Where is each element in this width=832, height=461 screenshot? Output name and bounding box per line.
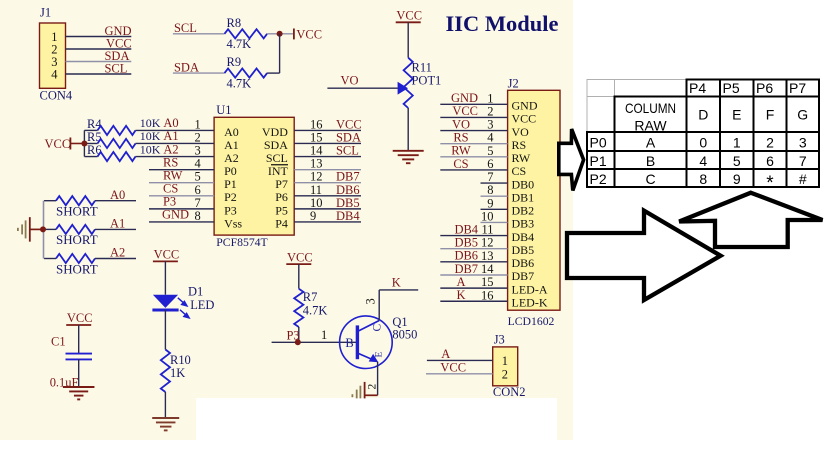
svg-text:10K: 10K bbox=[140, 129, 161, 143]
svg-text:C1: C1 bbox=[51, 335, 66, 349]
svg-text:J3: J3 bbox=[494, 333, 505, 347]
svg-text:A1: A1 bbox=[224, 138, 239, 152]
svg-text:A2: A2 bbox=[224, 151, 239, 165]
svg-text:A0: A0 bbox=[224, 125, 239, 139]
LED D1 bbox=[153, 295, 178, 308]
resistor R10 1K bbox=[161, 350, 170, 392]
wire pin6 CS bbox=[149, 195, 214, 197]
svg-text:9: 9 bbox=[733, 171, 741, 187]
ground bbox=[393, 150, 424, 152]
svg-text:J2: J2 bbox=[508, 77, 519, 91]
wire SCL to R8 bbox=[173, 33, 225, 35]
svg-text:K: K bbox=[392, 275, 401, 289]
power port VCC bbox=[286, 263, 311, 265]
svg-text:8: 8 bbox=[699, 171, 707, 187]
svg-text:3: 3 bbox=[799, 135, 807, 151]
svg-text:3: 3 bbox=[194, 144, 200, 158]
svg-text:SHORT: SHORT bbox=[56, 261, 98, 276]
svg-text:J1: J1 bbox=[40, 6, 51, 20]
svg-text:4: 4 bbox=[487, 131, 494, 145]
svg-text:R11: R11 bbox=[412, 61, 432, 75]
wire pin16 bbox=[294, 129, 361, 131]
power port VCC bbox=[396, 21, 421, 23]
svg-text:VCC: VCC bbox=[512, 112, 537, 126]
svg-text:7: 7 bbox=[799, 153, 807, 169]
svg-text:R10: R10 bbox=[170, 353, 191, 367]
up block arrow bbox=[679, 193, 822, 247]
svg-text:5: 5 bbox=[733, 153, 741, 169]
wire J3 pin2 bbox=[426, 373, 493, 375]
ground bbox=[63, 386, 94, 388]
svg-text:4: 4 bbox=[51, 68, 58, 82]
svg-text:1: 1 bbox=[194, 117, 200, 131]
svg-text:P3: P3 bbox=[163, 195, 176, 209]
svg-text:R9: R9 bbox=[227, 55, 242, 69]
svg-text:R4: R4 bbox=[87, 117, 102, 131]
svg-text:6: 6 bbox=[487, 157, 493, 171]
svg-text:R8: R8 bbox=[227, 16, 242, 30]
svg-text:GND: GND bbox=[512, 99, 538, 113]
power port VCC bbox=[153, 260, 178, 262]
wire emitter to ground bbox=[377, 362, 379, 396]
wire J2 pin14 bbox=[440, 274, 507, 276]
svg-text:P6: P6 bbox=[275, 190, 288, 204]
svg-text:1: 1 bbox=[321, 328, 327, 342]
svg-text:LED-K: LED-K bbox=[512, 295, 548, 309]
svg-text:0: 0 bbox=[699, 135, 707, 151]
svg-text:A: A bbox=[456, 275, 465, 289]
svg-text:G: G bbox=[797, 106, 808, 122]
svg-text:P5: P5 bbox=[275, 203, 288, 217]
svg-text:CS: CS bbox=[163, 182, 178, 196]
wire VCC stub bbox=[70, 142, 84, 144]
wire J2 pin16 bbox=[440, 300, 507, 302]
ground bbox=[29, 217, 31, 242]
ground bbox=[152, 417, 179, 419]
wire SDA to R9 bbox=[173, 72, 225, 74]
svg-text:3: 3 bbox=[364, 298, 378, 304]
wire pin14 bbox=[294, 156, 361, 158]
svg-text:DB0: DB0 bbox=[512, 177, 535, 191]
svg-text:C: C bbox=[372, 324, 384, 332]
svg-text:5: 5 bbox=[487, 144, 493, 158]
svg-text:4: 4 bbox=[194, 157, 201, 171]
svg-text:RAW: RAW bbox=[634, 117, 667, 133]
junction dot bbox=[277, 31, 283, 37]
svg-text:P6: P6 bbox=[756, 80, 773, 96]
wire pin4 RS bbox=[149, 169, 214, 171]
svg-text:A0: A0 bbox=[110, 188, 125, 202]
potentiometer R11 POT1 bbox=[404, 58, 413, 108]
svg-text:VCC: VCC bbox=[452, 104, 478, 118]
transistor Q1 8050 bbox=[340, 316, 393, 369]
svg-text:4.7K: 4.7K bbox=[303, 303, 328, 317]
svg-text:DB5: DB5 bbox=[512, 243, 535, 257]
INT overline bbox=[271, 164, 288, 166]
wire J1 pin4 SCL bbox=[66, 73, 132, 75]
svg-text:VDD: VDD bbox=[262, 125, 288, 139]
svg-text:SDA: SDA bbox=[264, 138, 288, 152]
svg-text:VO: VO bbox=[341, 73, 359, 87]
wire D1 to R10 bbox=[164, 310, 166, 350]
svg-text:14: 14 bbox=[481, 262, 494, 276]
wire J2 pin4 bbox=[440, 143, 507, 145]
svg-text:P0: P0 bbox=[590, 135, 607, 151]
svg-text:8: 8 bbox=[487, 183, 493, 197]
wire J2 pin10 bbox=[481, 221, 508, 223]
svg-text:P7: P7 bbox=[789, 80, 806, 96]
svg-text:CON2: CON2 bbox=[493, 385, 526, 399]
svg-text:8050: 8050 bbox=[392, 327, 417, 341]
svg-text:P5: P5 bbox=[723, 80, 740, 96]
svg-text:D1: D1 bbox=[188, 284, 203, 298]
svg-text:10K: 10K bbox=[140, 142, 161, 156]
wire R11 to ground bbox=[407, 108, 409, 151]
svg-text:VO: VO bbox=[452, 117, 470, 131]
svg-text:1K: 1K bbox=[170, 366, 185, 380]
svg-text:2: 2 bbox=[487, 104, 493, 118]
svg-text:A2: A2 bbox=[163, 142, 178, 156]
svg-text:4: 4 bbox=[699, 153, 707, 169]
wire J2 pin12 bbox=[440, 248, 507, 250]
wire J3 pin1 bbox=[427, 359, 493, 361]
svg-text:*: * bbox=[766, 173, 774, 194]
wire collector to K bbox=[378, 290, 380, 321]
wire pin10 bbox=[294, 208, 361, 210]
svg-text:1: 1 bbox=[487, 91, 493, 105]
svg-text:SCL: SCL bbox=[336, 144, 359, 158]
svg-text:2: 2 bbox=[367, 384, 379, 390]
svg-text:CON4: CON4 bbox=[40, 88, 73, 102]
wire J2 pin13 bbox=[440, 261, 507, 263]
svg-text:LED: LED bbox=[190, 298, 214, 312]
wire R10 to ground bbox=[164, 392, 166, 418]
small right arrow bbox=[559, 129, 584, 191]
wire R7 to base bbox=[298, 327, 300, 342]
ground bbox=[364, 382, 366, 399]
wire J2 pin3 bbox=[440, 130, 507, 132]
jumper SHORT A2 bbox=[44, 258, 56, 260]
svg-text:4.7K: 4.7K bbox=[227, 37, 252, 51]
svg-text:RS: RS bbox=[512, 138, 527, 152]
wire J1 pin1 GND bbox=[66, 36, 132, 38]
svg-text:DB4: DB4 bbox=[336, 209, 360, 223]
svg-text:RW: RW bbox=[451, 144, 471, 158]
svg-text:CS: CS bbox=[453, 157, 468, 171]
svg-text:GND: GND bbox=[162, 208, 189, 222]
svg-text:LED-A: LED-A bbox=[512, 282, 548, 296]
svg-text:10K: 10K bbox=[140, 116, 161, 130]
svg-text:VO: VO bbox=[512, 125, 530, 139]
svg-text:2: 2 bbox=[766, 135, 774, 151]
svg-text:10: 10 bbox=[310, 196, 322, 210]
jumper SHORT A0 bbox=[44, 200, 56, 202]
svg-text:INT: INT bbox=[268, 164, 289, 178]
svg-text:A: A bbox=[441, 347, 450, 361]
svg-text:DB4: DB4 bbox=[454, 222, 478, 236]
svg-text:VCC: VCC bbox=[296, 27, 322, 41]
wire pin9 bbox=[294, 221, 361, 223]
wire pin15 bbox=[294, 142, 361, 144]
wire VCC to R11 bbox=[407, 22, 409, 57]
svg-text:A1: A1 bbox=[163, 129, 178, 143]
svg-text:13: 13 bbox=[481, 249, 493, 263]
wire J1 pin3 SDA bbox=[66, 61, 132, 63]
wire J2 pin9 bbox=[481, 208, 508, 210]
svg-text:PCF8574T: PCF8574T bbox=[216, 236, 267, 249]
svg-text:DB4: DB4 bbox=[512, 230, 535, 244]
svg-text:A2: A2 bbox=[110, 246, 125, 260]
svg-text:COLUMN: COLUMN bbox=[625, 100, 676, 116]
svg-text:6: 6 bbox=[766, 153, 774, 169]
svg-text:POT1: POT1 bbox=[412, 74, 442, 88]
svg-text:P3: P3 bbox=[224, 203, 237, 217]
svg-text:DB6: DB6 bbox=[336, 183, 360, 197]
svg-text:C: C bbox=[645, 171, 655, 187]
wire jumper bus bbox=[43, 201, 45, 259]
svg-text:VCC: VCC bbox=[440, 360, 466, 374]
svg-text:#: # bbox=[799, 171, 807, 187]
wire pin11 bbox=[294, 195, 361, 197]
svg-text:DB3: DB3 bbox=[512, 217, 535, 231]
resistor R7 4.7K bbox=[294, 289, 303, 327]
schematic sheet background bbox=[0, 0, 573, 440]
svg-text:DB6: DB6 bbox=[512, 256, 535, 270]
svg-text:DB7: DB7 bbox=[454, 262, 478, 276]
wire base bbox=[272, 341, 357, 343]
wire R9 up to junction bbox=[267, 72, 280, 74]
wire J2 pin7 bbox=[481, 182, 508, 184]
wire VCC to D1 bbox=[164, 261, 166, 294]
svg-text:DB5: DB5 bbox=[454, 236, 478, 250]
svg-text:P0: P0 bbox=[224, 164, 237, 178]
svg-text:P4: P4 bbox=[689, 80, 706, 96]
svg-text:RS: RS bbox=[453, 130, 468, 144]
svg-text:P7: P7 bbox=[275, 177, 288, 191]
svg-text:VCC: VCC bbox=[45, 137, 71, 151]
wire ground stub bbox=[30, 228, 43, 230]
svg-text:13: 13 bbox=[310, 157, 322, 171]
junction dot bbox=[40, 226, 46, 232]
svg-text:VCC: VCC bbox=[287, 250, 313, 264]
wire pin12 bbox=[294, 182, 361, 184]
wire J2 pin15 bbox=[440, 287, 507, 289]
svg-text:12: 12 bbox=[481, 236, 493, 250]
svg-text:DB1: DB1 bbox=[512, 190, 535, 204]
wire J2 pin1 bbox=[440, 103, 507, 105]
svg-text:VCC: VCC bbox=[396, 9, 422, 23]
svg-text:F: F bbox=[766, 106, 775, 122]
svg-text:P1: P1 bbox=[590, 153, 607, 169]
wire VO to wiper bbox=[327, 87, 397, 89]
svg-text:11: 11 bbox=[481, 223, 493, 237]
power port VCC bbox=[293, 29, 295, 40]
svg-text:DB5: DB5 bbox=[336, 196, 360, 210]
svg-text:U1: U1 bbox=[216, 103, 231, 117]
svg-text:7: 7 bbox=[487, 170, 493, 184]
svg-text:IIC Module: IIC Module bbox=[446, 11, 559, 36]
svg-text:B: B bbox=[345, 336, 353, 350]
svg-text:12: 12 bbox=[310, 170, 322, 184]
svg-text:A0: A0 bbox=[163, 116, 178, 130]
svg-text:RW: RW bbox=[163, 168, 183, 182]
svg-text:2: 2 bbox=[194, 130, 200, 144]
junction dot bbox=[81, 140, 87, 146]
wire VCC to R7 bbox=[298, 264, 300, 289]
svg-text:P1: P1 bbox=[224, 177, 237, 191]
svg-text:VCC: VCC bbox=[336, 117, 362, 131]
svg-text:E: E bbox=[732, 106, 741, 122]
svg-text:1: 1 bbox=[733, 135, 741, 151]
svg-text:8: 8 bbox=[194, 209, 200, 223]
svg-text:2: 2 bbox=[502, 368, 508, 382]
svg-text:RS: RS bbox=[163, 155, 178, 169]
svg-text:SCL: SCL bbox=[266, 151, 288, 165]
svg-text:16: 16 bbox=[481, 288, 493, 302]
svg-text:SCL: SCL bbox=[105, 61, 128, 75]
wire pin5 RW bbox=[149, 182, 214, 184]
svg-text:10: 10 bbox=[481, 209, 493, 223]
svg-text:4.7K: 4.7K bbox=[227, 76, 252, 90]
svg-text:A1: A1 bbox=[110, 217, 125, 231]
wire pin8 GND bbox=[149, 221, 214, 223]
svg-text:DB7: DB7 bbox=[512, 269, 535, 283]
svg-text:E: E bbox=[374, 352, 385, 358]
svg-text:7: 7 bbox=[194, 196, 200, 210]
svg-text:SHORT: SHORT bbox=[56, 232, 98, 247]
wire pin7 P3 bbox=[149, 208, 214, 210]
svg-text:16: 16 bbox=[310, 117, 322, 131]
svg-text:11: 11 bbox=[310, 183, 322, 197]
svg-text:R7: R7 bbox=[303, 290, 318, 304]
keypad mapping table bbox=[587, 80, 687, 133]
svg-text:DB2: DB2 bbox=[512, 204, 535, 218]
svg-text:P2: P2 bbox=[590, 171, 607, 187]
wire J1 pin2 VCC bbox=[66, 48, 132, 50]
svg-text:DB6: DB6 bbox=[454, 249, 478, 263]
wire R4-R6 bus bbox=[83, 130, 85, 156]
svg-text:3: 3 bbox=[487, 118, 493, 132]
svg-text:P4: P4 bbox=[275, 216, 288, 230]
svg-text:A: A bbox=[646, 135, 656, 151]
wire J2 pin8 bbox=[481, 195, 508, 197]
wire C1 to ground bbox=[78, 359, 80, 387]
wire R8 to VCC bbox=[267, 33, 294, 35]
wire pin13 bbox=[294, 169, 361, 171]
svg-text:VCC: VCC bbox=[154, 248, 180, 262]
svg-text:14: 14 bbox=[310, 144, 323, 158]
svg-text:LCD1602: LCD1602 bbox=[508, 315, 555, 328]
svg-text:1: 1 bbox=[502, 354, 508, 368]
svg-text:VCC: VCC bbox=[67, 311, 93, 325]
svg-text:15: 15 bbox=[481, 275, 493, 289]
svg-text:15: 15 bbox=[310, 130, 322, 144]
svg-text:6: 6 bbox=[194, 183, 200, 197]
power port VCC bbox=[66, 324, 91, 326]
power port VCC bbox=[69, 137, 71, 149]
svg-text:DB7: DB7 bbox=[336, 170, 360, 184]
junction dot bbox=[295, 339, 301, 345]
svg-text:SHORT: SHORT bbox=[56, 204, 98, 219]
svg-text:5: 5 bbox=[194, 170, 200, 184]
svg-text:P2: P2 bbox=[224, 190, 237, 204]
svg-text:B: B bbox=[646, 153, 655, 169]
svg-text:9: 9 bbox=[487, 196, 493, 210]
wire VCC to C1 bbox=[78, 325, 80, 353]
wire J2 pin2 bbox=[440, 116, 507, 118]
svg-text:9: 9 bbox=[310, 209, 316, 223]
svg-text:Vss: Vss bbox=[224, 216, 242, 230]
svg-text:RW: RW bbox=[512, 151, 531, 165]
svg-text:CS: CS bbox=[512, 164, 527, 178]
wire J2 pin5 bbox=[440, 156, 507, 158]
big right block arrow bbox=[567, 211, 721, 300]
jumper SHORT A1 bbox=[44, 228, 56, 230]
svg-text:D: D bbox=[698, 106, 708, 122]
svg-text:SDA: SDA bbox=[336, 130, 361, 144]
svg-text:GND: GND bbox=[451, 91, 478, 105]
wire J2 pin11 bbox=[440, 235, 507, 237]
wire J2 pin6 bbox=[440, 169, 507, 171]
svg-text:K: K bbox=[456, 288, 465, 302]
